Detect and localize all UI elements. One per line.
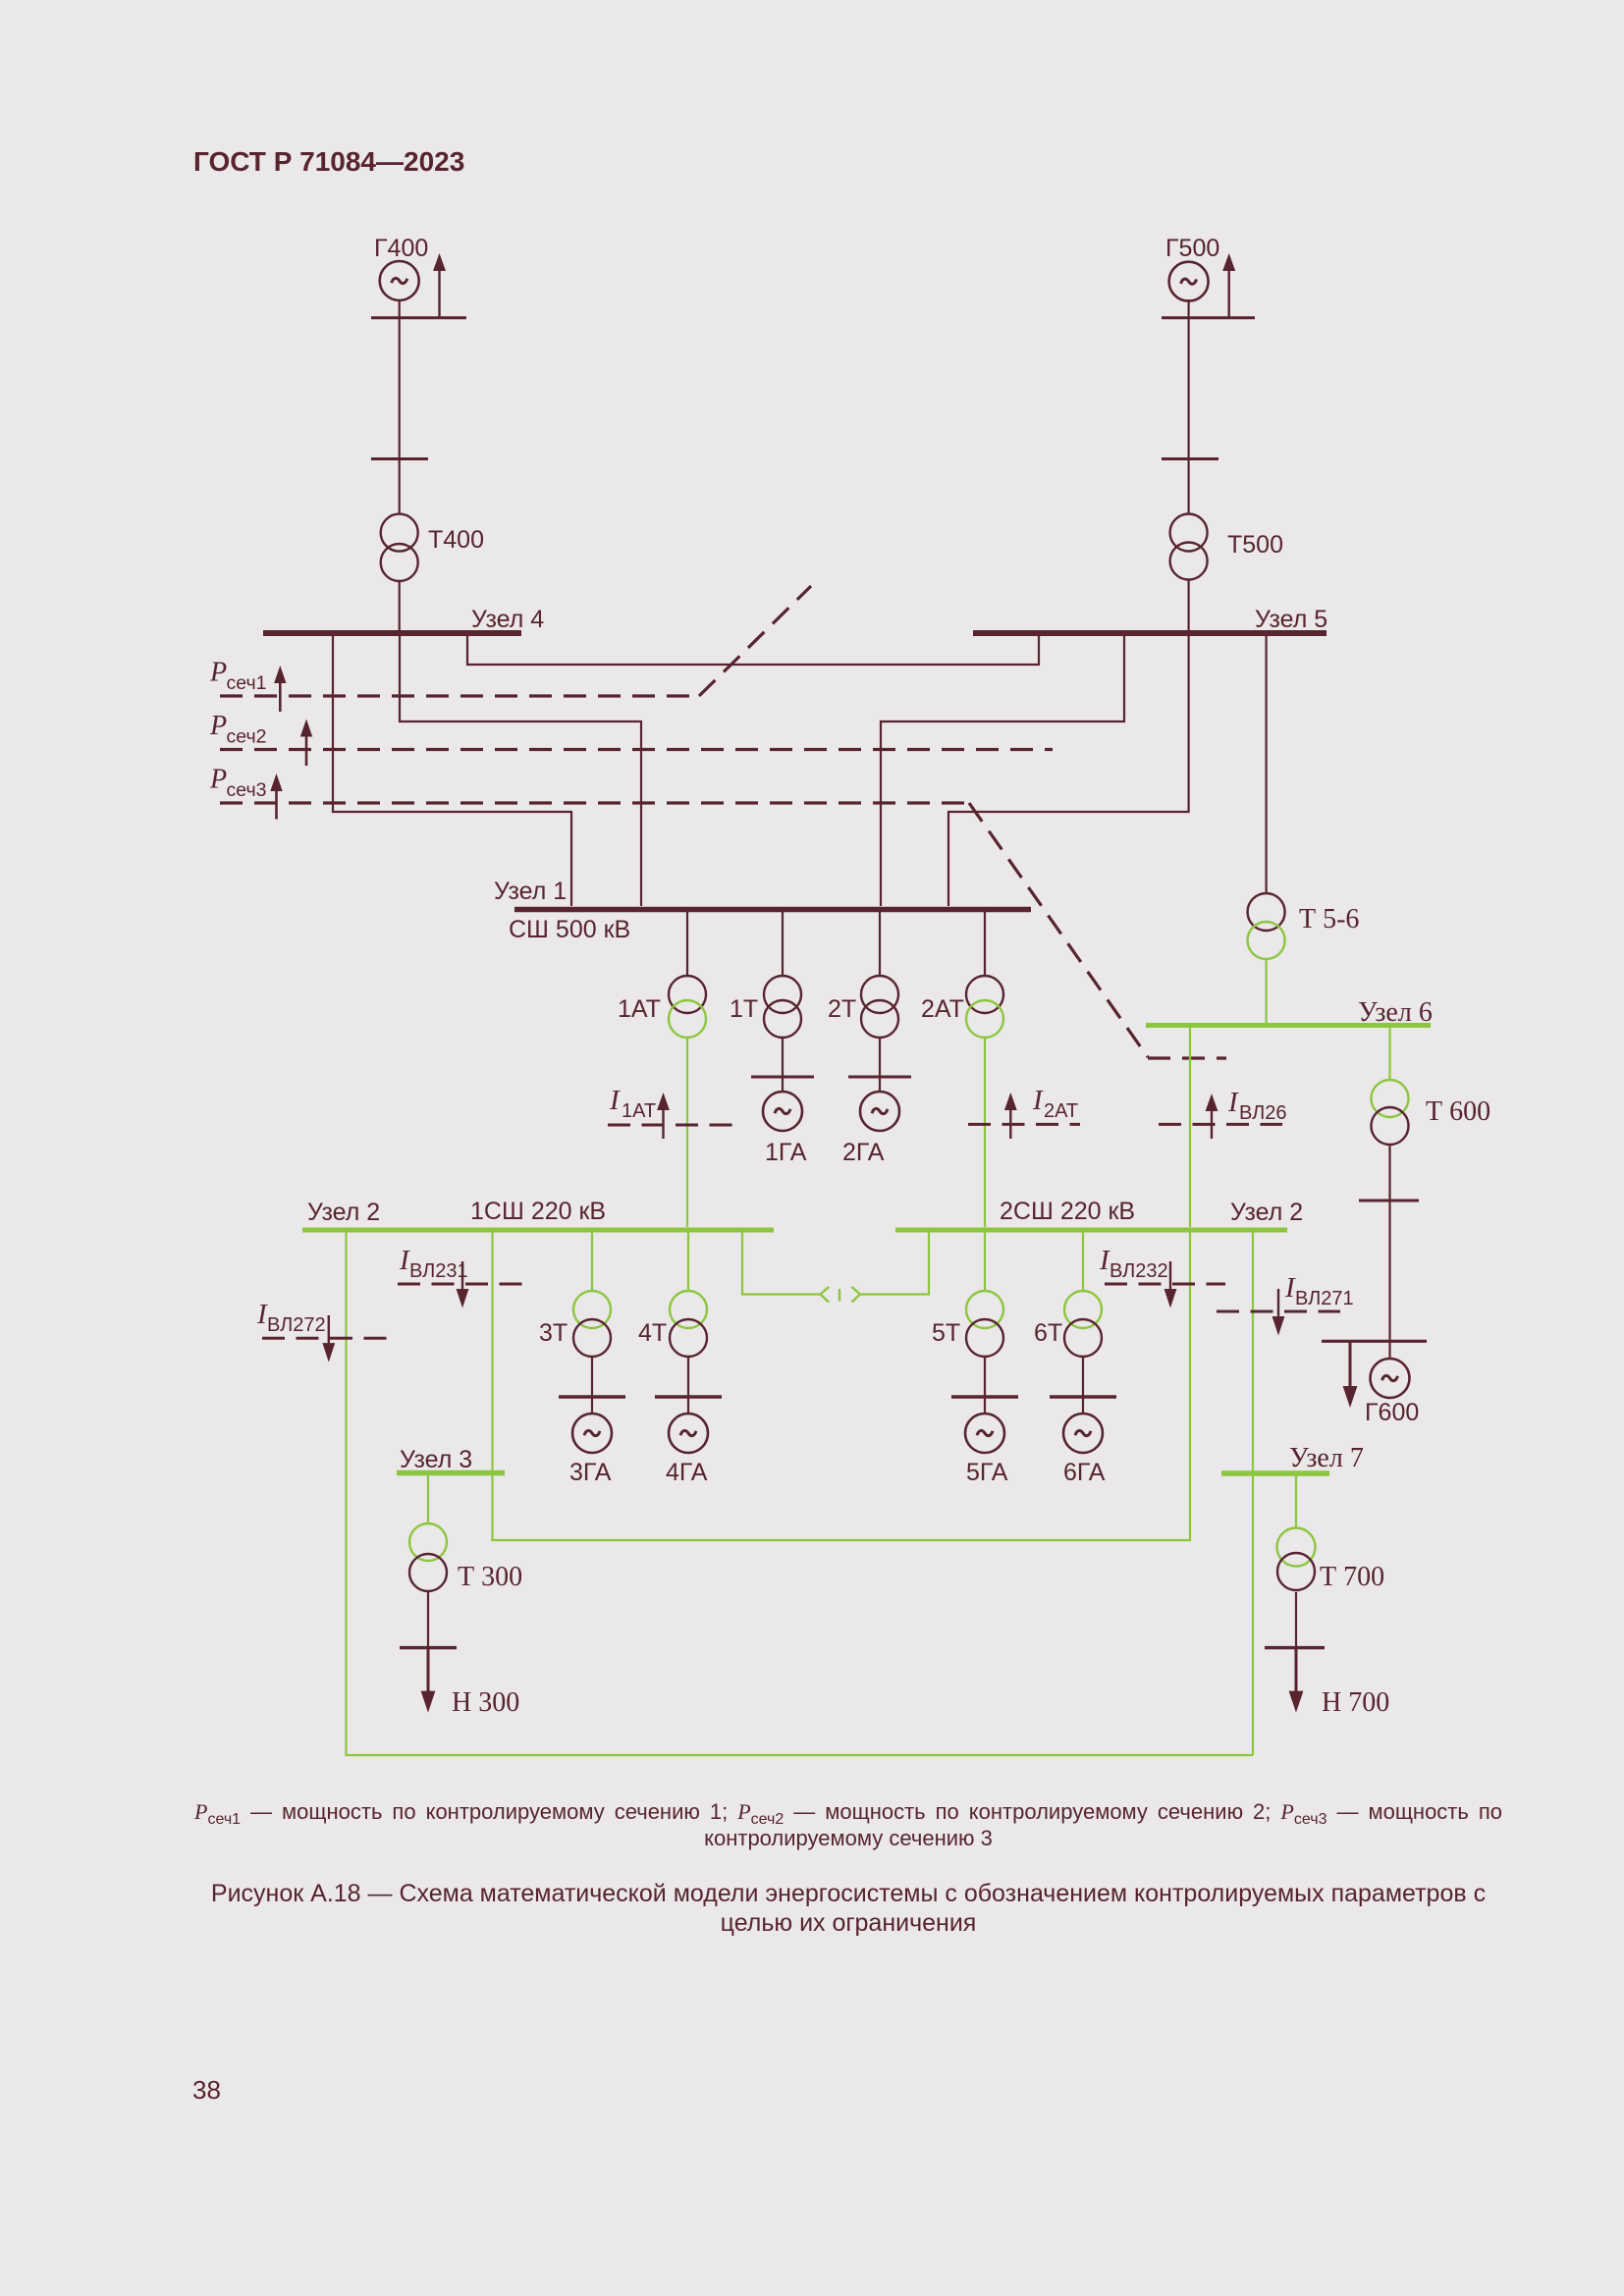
- svg-text:Г600: Г600: [1365, 1399, 1419, 1426]
- transformer Т 700: [1277, 1528, 1316, 1591]
- figure caption: [194, 1879, 1502, 1938]
- svg-text:1АТ: 1АТ: [622, 1100, 656, 1122]
- dashed I_2АТ: [968, 1123, 1080, 1126]
- svg-text:I: I: [609, 1085, 621, 1116]
- tick 1ГА: [751, 1076, 814, 1079]
- label Узел 6: [1358, 997, 1433, 1028]
- arrow I_ВЛ271: [1272, 1289, 1285, 1336]
- wire bus7-Т700: [1295, 1475, 1297, 1527]
- svg-text:ВЛ231: ВЛ231: [409, 1260, 468, 1282]
- svg-text:ВЛ272: ВЛ272: [267, 1314, 326, 1336]
- label 6Т: [1034, 1319, 1062, 1347]
- label Узел 2 left: [307, 1199, 380, 1226]
- wire Т500-bus5: [1187, 579, 1189, 636]
- label 1СШ 220 кВ: [470, 1198, 606, 1225]
- label 2Т: [828, 995, 856, 1023]
- switch bar: [839, 1289, 840, 1302]
- wire ВЛ271: [1252, 1232, 1254, 1755]
- label Т500: [1227, 531, 1283, 559]
- arrow I_ВЛ272: [322, 1315, 335, 1362]
- wire bus1-2Т: [879, 912, 881, 976]
- label I_ВЛ26: [1227, 1087, 1287, 1124]
- svg-text:Узел 2: Узел 2: [307, 1199, 380, 1226]
- wire bus6-Т600: [1388, 1028, 1390, 1081]
- label 1Т: [730, 995, 758, 1023]
- svg-text:Узел 5: Узел 5: [1255, 606, 1327, 633]
- label Т400: [428, 526, 484, 554]
- dashed I_ВЛ272: [262, 1337, 388, 1340]
- generator 5ГА: [965, 1414, 1004, 1453]
- arrow Рсеч3: [270, 774, 282, 820]
- wire Г500-Т500: [1187, 299, 1189, 514]
- arrow Рсеч1: [274, 666, 286, 712]
- label I_ВЛ271: [1284, 1272, 1354, 1309]
- svg-text:Т 600: Т 600: [1426, 1096, 1490, 1127]
- svg-text:5Т: 5Т: [932, 1319, 960, 1347]
- generator 3ГА: [572, 1414, 612, 1453]
- label 2АТ: [921, 995, 964, 1023]
- tick Г600: [1322, 1340, 1427, 1343]
- svg-text:P: P: [209, 765, 227, 795]
- transformer Т 5-6: [1248, 893, 1285, 959]
- svg-text:P: P: [209, 658, 227, 688]
- transformer 1Т: [764, 976, 801, 1038]
- dashed I_ВЛ271: [1217, 1310, 1340, 1313]
- label Г400: [374, 235, 428, 262]
- svg-text:СШ 500 кВ: СШ 500 кВ: [509, 916, 630, 943]
- load Н 700 arrow: [1289, 1648, 1304, 1713]
- page header ГОСТ Р 71084—2023: [193, 148, 464, 176]
- svg-text:Н 300: Н 300: [452, 1687, 519, 1718]
- generator 1ГА: [763, 1092, 802, 1131]
- wire Г400-Т400: [399, 299, 401, 514]
- wire ВЛ26: [1189, 1028, 1191, 1227]
- svg-text:Т 700: Т 700: [1320, 1562, 1384, 1592]
- label Узел 3: [400, 1446, 472, 1473]
- svg-text:Г400: Г400: [374, 235, 428, 262]
- label I_ВЛ232: [1099, 1245, 1168, 1282]
- bus Узел 4: [263, 630, 521, 636]
- label Н 700: [1322, 1687, 1389, 1718]
- bus Узел 1: [514, 907, 1031, 913]
- label I_ВЛ231: [399, 1245, 468, 1282]
- terminal tick Г400: [371, 316, 466, 319]
- svg-text:Узел 7: Узел 7: [1289, 1443, 1364, 1473]
- svg-text:4Т: 4Т: [638, 1319, 667, 1347]
- load Н 300 arrow: [421, 1648, 436, 1713]
- svg-text:2ГА: 2ГА: [842, 1139, 885, 1166]
- arrow I_1АТ: [657, 1093, 670, 1139]
- svg-text:Узел 2: Узел 2: [1230, 1199, 1303, 1226]
- arrow P Г500: [1222, 253, 1235, 317]
- generator 2ГА: [860, 1092, 899, 1131]
- svg-text:P: P: [209, 711, 227, 741]
- label СШ 500 кВ: [509, 916, 630, 943]
- transformer Т 300: [409, 1523, 447, 1591]
- transformer Т400: [381, 514, 418, 581]
- transformer 3Т: [573, 1291, 611, 1357]
- svg-text:I: I: [1227, 1087, 1239, 1118]
- label Т 600: [1426, 1096, 1490, 1127]
- terminal tick Г500: [1162, 316, 1255, 319]
- svg-text:6Т: 6Т: [1034, 1319, 1062, 1347]
- label 1ГА: [765, 1139, 807, 1166]
- label I_2АТ: [1032, 1085, 1078, 1122]
- svg-text:3ГА: 3ГА: [569, 1459, 612, 1486]
- tick 2ГА: [848, 1076, 911, 1079]
- svg-text:Т400: Т400: [428, 526, 484, 554]
- label 3ГА: [569, 1459, 612, 1486]
- dashed section 1: [220, 586, 811, 696]
- wire bus5-Т5-6: [1265, 636, 1267, 893]
- label 1АТ: [618, 995, 661, 1023]
- tick Н300: [400, 1646, 457, 1649]
- generator Г500: [1169, 262, 1209, 301]
- page number: [192, 2075, 221, 2106]
- svg-text:6ГА: 6ГА: [1063, 1459, 1106, 1486]
- wire bus2-3Т: [591, 1232, 593, 1291]
- arrow I_ВЛ26: [1206, 1094, 1218, 1139]
- label 2СШ 220 кВ: [1000, 1198, 1135, 1225]
- svg-text:2СШ 220 кВ: 2СШ 220 кВ: [1000, 1198, 1135, 1225]
- svg-text:сеч3: сеч3: [227, 779, 267, 801]
- transformer 5Т: [966, 1291, 1003, 1357]
- svg-text:1Т: 1Т: [730, 995, 758, 1023]
- svg-text:2Т: 2Т: [828, 995, 856, 1023]
- svg-text:5ГА: 5ГА: [966, 1459, 1008, 1486]
- bus Узел 3: [397, 1470, 505, 1476]
- label 6ГА: [1063, 1459, 1106, 1486]
- generator Г400: [380, 261, 419, 300]
- svg-text:сеч2: сеч2: [227, 726, 267, 748]
- arrow I_ВЛ231: [457, 1261, 469, 1308]
- svg-text:3Т: 3Т: [539, 1319, 568, 1347]
- svg-text:сеч1: сеч1: [227, 672, 267, 694]
- transformer 2АТ: [966, 976, 1003, 1038]
- svg-text:Узел 4: Узел 4: [471, 606, 544, 633]
- label 4Т: [638, 1319, 667, 1347]
- wire line 4-1 a: [333, 636, 571, 906]
- caption legend line 1: [194, 1799, 1502, 1826]
- svg-text:Узел 6: Узел 6: [1358, 997, 1433, 1028]
- wire bus2-6Т: [1082, 1232, 1084, 1291]
- dashed section 3: [220, 803, 1226, 1058]
- wire 3Т-3ГА: [591, 1357, 593, 1415]
- bus Узел 5: [973, 630, 1326, 636]
- svg-text:I: I: [1032, 1085, 1044, 1116]
- label I_1АТ: [609, 1085, 656, 1122]
- tick Н700: [1265, 1646, 1325, 1649]
- bus 2СШ 220 кВ: [895, 1228, 1287, 1233]
- tick 3ГА: [559, 1395, 625, 1398]
- arrow I_ВЛ232: [1164, 1261, 1177, 1308]
- generator 6ГА: [1063, 1414, 1103, 1453]
- arrow Рсеч2: [300, 720, 312, 767]
- svg-text:2АТ: 2АТ: [1044, 1100, 1078, 1122]
- transformer 2Т: [861, 976, 898, 1038]
- generator Г600: [1371, 1359, 1410, 1398]
- wire bus1-1АТ: [686, 912, 688, 976]
- wire line 4-5: [467, 636, 1039, 665]
- svg-text:Г500: Г500: [1165, 235, 1219, 262]
- label Узел 2 right: [1230, 1199, 1303, 1226]
- label Узел 1: [494, 878, 567, 905]
- label Т 5-6: [1299, 904, 1359, 934]
- label Узел 5: [1255, 606, 1327, 633]
- label Узел 7: [1289, 1443, 1364, 1473]
- tick Т600: [1359, 1200, 1419, 1202]
- dashed I_ВЛ26: [1159, 1123, 1282, 1126]
- wire bus1-1Т: [782, 912, 784, 976]
- wire Т600 down: [1388, 1145, 1390, 1341]
- wire line 5-1 a: [881, 636, 1124, 906]
- transformer 6Т: [1064, 1291, 1102, 1357]
- dashed I_ВЛ231: [398, 1283, 525, 1286]
- label 5ГА: [966, 1459, 1008, 1486]
- svg-text:1СШ 220 кВ: 1СШ 220 кВ: [470, 1198, 606, 1225]
- dashed section 2: [220, 748, 1053, 751]
- wire Т300 down: [427, 1591, 429, 1647]
- wire Т700 down: [1295, 1592, 1297, 1648]
- label Т 300: [458, 1562, 522, 1592]
- wire 1АТ-1СШ: [686, 1038, 688, 1227]
- wire bus2-4Т: [687, 1232, 689, 1291]
- wire tie right: [852, 1232, 930, 1303]
- wire 2Т-2ГА: [879, 1038, 881, 1093]
- tick 5ГА: [951, 1395, 1018, 1398]
- tick on Г500 lead: [1162, 457, 1218, 460]
- label Т 700: [1320, 1562, 1384, 1592]
- svg-text:2АТ: 2АТ: [921, 995, 964, 1023]
- arrow I_2АТ: [1004, 1093, 1017, 1139]
- svg-text:ВЛ271: ВЛ271: [1295, 1288, 1354, 1309]
- wire line 4-1 b: [400, 636, 641, 906]
- wire line 5-1 b: [948, 636, 1189, 906]
- label 2ГА: [842, 1139, 885, 1166]
- wire tie left: [742, 1232, 829, 1303]
- tick 4ГА: [655, 1395, 722, 1398]
- svg-text:ВЛ26: ВЛ26: [1239, 1102, 1287, 1124]
- svg-text:Т500: Т500: [1227, 531, 1283, 559]
- svg-text:Т 300: Т 300: [458, 1562, 522, 1592]
- wire ВЛ232: [493, 1232, 1191, 1540]
- wire ВЛ272: [347, 1232, 1254, 1755]
- wire Т400-bus4: [399, 581, 401, 636]
- arrow load node6: [1343, 1341, 1358, 1408]
- wire bus1-2АТ: [984, 912, 986, 976]
- tick 6ГА: [1050, 1395, 1116, 1398]
- dashed I_ВЛ232: [1105, 1283, 1225, 1286]
- label Г600: [1365, 1399, 1419, 1426]
- label Н 300: [452, 1687, 519, 1718]
- wire 6Т-6ГА: [1082, 1357, 1084, 1415]
- svg-text:1АТ: 1АТ: [618, 995, 661, 1023]
- svg-text:Узел 1: Узел 1: [494, 878, 567, 905]
- generator 4ГА: [669, 1414, 708, 1453]
- label Рсеч3: [209, 765, 266, 802]
- tick on Г400 lead: [371, 457, 428, 460]
- wire ВЛ231: [491, 1232, 493, 1472]
- svg-text:Т 5-6: Т 5-6: [1299, 904, 1359, 934]
- wire 5Т-5ГА: [984, 1357, 986, 1415]
- wire tick-Г600: [1388, 1341, 1390, 1360]
- transformer Т500: [1170, 514, 1208, 580]
- label Рсеч1: [209, 658, 266, 695]
- svg-text:Н 700: Н 700: [1322, 1687, 1389, 1718]
- wire 1Т-1ГА: [782, 1038, 784, 1093]
- svg-text:1ГА: 1ГА: [765, 1139, 807, 1166]
- wire 2АТ-2СШ: [984, 1038, 986, 1227]
- label Рсеч2: [209, 711, 266, 748]
- label 3Т: [539, 1319, 568, 1347]
- label Г500: [1165, 235, 1219, 262]
- bus 1СШ 220 кВ: [302, 1228, 774, 1233]
- svg-text:4ГА: 4ГА: [666, 1459, 708, 1486]
- bus Узел 7: [1221, 1470, 1329, 1476]
- label 4ГА: [666, 1459, 708, 1486]
- wire 4Т-4ГА: [687, 1357, 689, 1415]
- label I_ВЛ272: [256, 1299, 326, 1336]
- wire bus3-Т300: [427, 1475, 429, 1524]
- bus Узел 6: [1146, 1023, 1431, 1028]
- transformer Т 600: [1372, 1080, 1409, 1145]
- wire bus2-5Т: [984, 1232, 986, 1291]
- label Узел 4: [471, 606, 544, 633]
- caption legend line 2: [194, 1826, 1502, 1851]
- arrow P Г400: [433, 253, 446, 317]
- svg-text:Узел 3: Узел 3: [400, 1446, 472, 1473]
- label 5Т: [932, 1319, 960, 1347]
- transformer 1АТ: [669, 976, 706, 1038]
- transformer 4Т: [670, 1291, 707, 1357]
- svg-text:ВЛ232: ВЛ232: [1110, 1260, 1168, 1282]
- dashed I_1АТ: [608, 1124, 732, 1127]
- wire Т5-6-bus6: [1265, 959, 1267, 1023]
